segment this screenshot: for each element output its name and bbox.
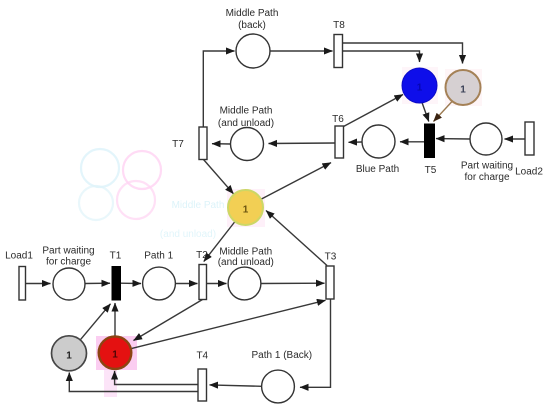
- wire: Blue Path place to T6: [349, 141, 363, 143]
- ghost artifact: faint cyan circle outline lower: [79, 186, 113, 220]
- wire: Load2 to Part waiting (top): [505, 138, 526, 140]
- wire: T8 to gray place (upper branch): [343, 43, 463, 64]
- svg-text:Middle Path: Middle Path: [220, 106, 273, 117]
- ghost artifact: faint pink box behind blue place: [402, 67, 438, 104]
- svg-text:T2: T2: [196, 250, 208, 261]
- wire: Load1 to Part waiting (bottom): [26, 283, 51, 285]
- transition T7: [199, 127, 207, 160]
- svg-text:Part waiting: Part waiting: [42, 246, 94, 257]
- place: Part waiting for charge (top right): [470, 123, 502, 155]
- wire: Path 1 place to T2: [175, 283, 197, 285]
- svg-text:(and unload): (and unload): [160, 229, 216, 240]
- wire: T4 to red place, left then up: [115, 371, 198, 385]
- wire: gray place to T5 (tan colored): [434, 102, 453, 122]
- ghost artifact: faint pink box behind gray top place: [445, 69, 482, 106]
- place: yellow token place: [228, 190, 263, 225]
- wire: yellow place to T2 diagonal: [204, 222, 235, 262]
- svg-text:Part waiting: Part waiting: [461, 161, 513, 172]
- svg-text:(back): (back): [238, 20, 266, 31]
- svg-text:(and unload): (and unload): [218, 118, 274, 129]
- ghost artifact: pink streak below red place: [104, 370, 117, 397]
- svg-text:1: 1: [417, 83, 423, 94]
- wire: T1 to Path 1 place: [121, 282, 142, 284]
- svg-text:Middle Path: Middle Path: [172, 200, 225, 211]
- svg-text:(and unload): (and unload): [218, 257, 274, 268]
- wire: T5 to Blue Path place: [400, 141, 425, 143]
- svg-text:T4: T4: [196, 351, 208, 362]
- wire: red place to T1 vertical: [114, 303, 116, 336]
- svg-text:1: 1: [66, 350, 72, 361]
- place: Middle Path (back): [236, 34, 270, 68]
- svg-text:Load1: Load1: [5, 250, 33, 261]
- svg-text:T3: T3: [325, 252, 337, 263]
- wire: Part waiting (top) to T5: [436, 138, 470, 140]
- wire: T3 to Path 1 (Back), down then left: [300, 299, 331, 387]
- svg-text:T5: T5: [425, 165, 437, 176]
- place: Blue Path: [362, 125, 395, 158]
- place: Middle Path (and unload) top: [231, 128, 264, 161]
- svg-text:Load2: Load2: [515, 167, 543, 178]
- svg-text:1: 1: [112, 350, 118, 361]
- wire: T6 to blue place diagonal: [344, 95, 404, 127]
- svg-text:1: 1: [460, 85, 466, 96]
- wire: Middle Path (and unload) top to T7: [212, 143, 231, 145]
- wire: T8 to blue place (lower branch): [343, 51, 420, 62]
- svg-text:T1: T1: [110, 250, 122, 261]
- wire: gray place (bottom) to T1 diagonal: [80, 304, 110, 340]
- svg-text:Middle Path: Middle Path: [226, 8, 279, 19]
- place: gray token place (top): [446, 70, 481, 105]
- svg-text:for charge: for charge: [464, 172, 509, 183]
- transition Load2: [525, 122, 534, 155]
- svg-text:1: 1: [243, 205, 249, 216]
- transition Load1: [19, 267, 26, 301]
- ghost artifact: faint cyan circle outline upper: [81, 149, 119, 187]
- ghost artifact: faint pink box behind yellow place: [227, 189, 265, 227]
- place: red token place: [99, 336, 132, 369]
- svg-text:Path 1: Path 1: [144, 251, 173, 262]
- place: Middle Path (and unload) bottom: [228, 267, 261, 300]
- ghost artifact: faint pink circle outline upper: [123, 151, 161, 189]
- wire: blue place to T5: [422, 103, 429, 122]
- wire: Middle Path (and unload) bottom to T3: [261, 282, 325, 284]
- place: gray token place (bottom): [52, 336, 87, 371]
- wire: red place to T3 diagonal: [131, 300, 326, 348]
- wire: T2 to red place diagonal: [134, 300, 203, 341]
- wire: Part waiting (bottom) to T1: [85, 282, 110, 284]
- svg-text:for charge: for charge: [46, 257, 91, 268]
- wire: T7 to yellow place diagonal: [204, 160, 234, 194]
- svg-text:Path 1 (Back): Path 1 (Back): [252, 350, 313, 361]
- svg-text:T8: T8: [333, 20, 345, 31]
- wire: T3 to yellow place diagonal: [266, 211, 327, 266]
- transition T5 (black): [425, 124, 435, 158]
- transition T8: [334, 35, 343, 68]
- wire: T7 to Middle Path (back), vertical then horizontal: [203, 51, 234, 127]
- ghost artifact: pink highlight box behind red place: [96, 336, 137, 370]
- svg-text:Blue Path: Blue Path: [356, 164, 399, 175]
- place: blue token place: [402, 68, 437, 103]
- ghost artifact: faint pink circle outline lower: [117, 181, 155, 219]
- svg-text:T6: T6: [332, 114, 344, 125]
- transition T3: [326, 266, 334, 299]
- transition T1 (black): [112, 267, 121, 301]
- wire: T6 to Middle Path (and unload) top: [269, 142, 336, 145]
- svg-text:T7: T7: [172, 139, 184, 150]
- transition T6: [335, 126, 344, 158]
- place: Part waiting for charge (bottom left): [53, 268, 85, 300]
- wire: T4 to gray place (bottom), left then up: [69, 373, 198, 392]
- place: Path 1: [143, 267, 176, 300]
- transition T4: [198, 369, 207, 401]
- transition T2: [199, 265, 207, 300]
- wire: T2 to Middle Path (and unload) bottom: [207, 283, 227, 285]
- wire: Path 1 (Back) to T4: [210, 385, 262, 386]
- wire: Middle Path (back) to T8: [270, 50, 333, 52]
- wire: yellow place to T6 diagonal: [261, 163, 331, 200]
- place: Path 1 (Back): [262, 370, 295, 403]
